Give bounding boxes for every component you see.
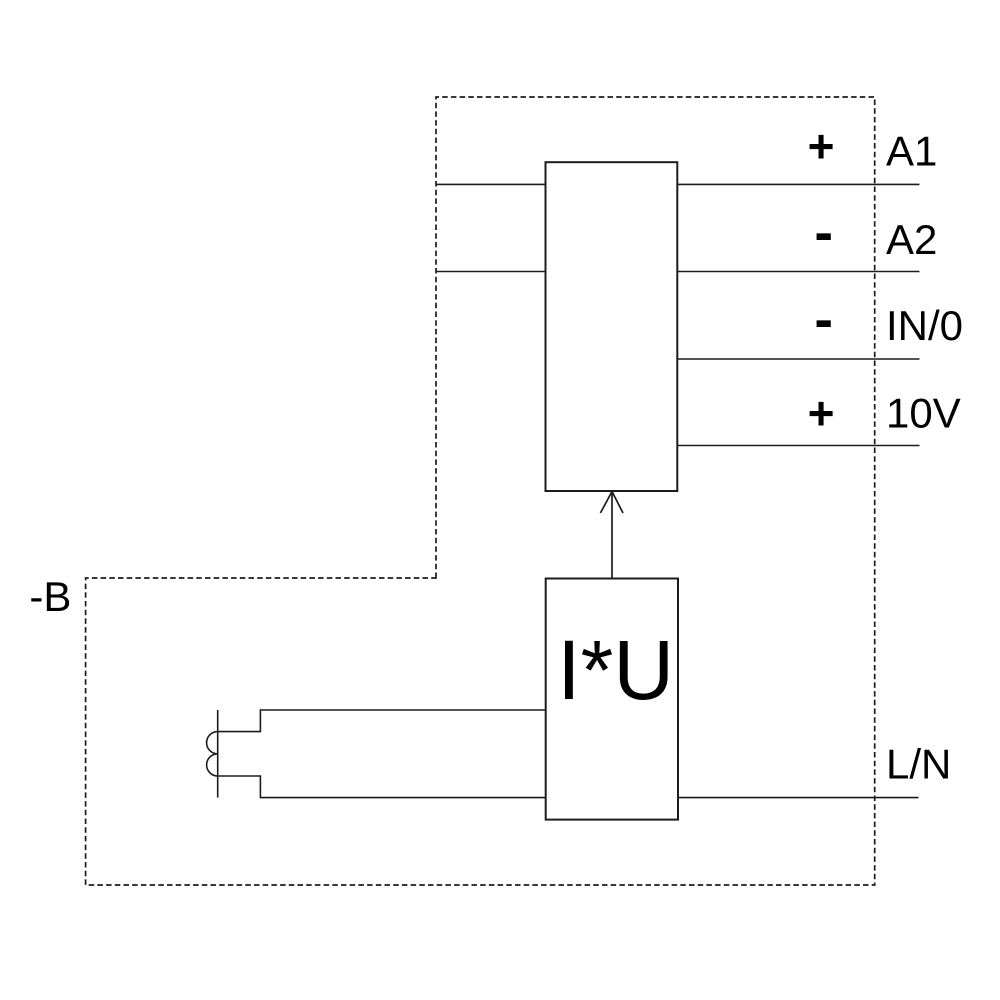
current transformer T1 winding arcs	[207, 732, 218, 776]
wire terminal A1	[677, 183, 919, 185]
current transformer T1 primary line	[217, 710, 219, 798]
wire terminal A2	[677, 271, 919, 273]
svg-text:+: +	[808, 387, 835, 439]
wire A1 left stub	[436, 183, 546, 185]
label -B	[29, 573, 71, 620]
measuring loop wire	[218, 710, 546, 798]
svg-text:A1: A1	[886, 128, 937, 175]
svg-text:-B: -B	[29, 573, 71, 620]
svg-text:10V: 10V	[886, 390, 961, 437]
wire A2 left stub	[436, 271, 546, 273]
svg-text:A2: A2	[886, 216, 937, 263]
wire terminal L/N	[678, 797, 919, 799]
wire terminal 10V	[677, 445, 919, 447]
svg-text:-: -	[814, 287, 833, 350]
svg-text:I*U: I*U	[557, 623, 674, 717]
device boundary -B (dashed enclosure)	[86, 97, 875, 885]
svg-text:L/N: L/N	[886, 740, 951, 787]
svg-text:+: +	[808, 120, 835, 172]
control block U1	[546, 162, 678, 491]
wire terminal IN/0	[677, 358, 919, 360]
arrow from I*U module to control block	[600, 492, 623, 579]
svg-text:IN/0: IN/0	[886, 302, 963, 349]
svg-text:-: -	[814, 200, 833, 263]
power module I*U	[546, 579, 678, 820]
